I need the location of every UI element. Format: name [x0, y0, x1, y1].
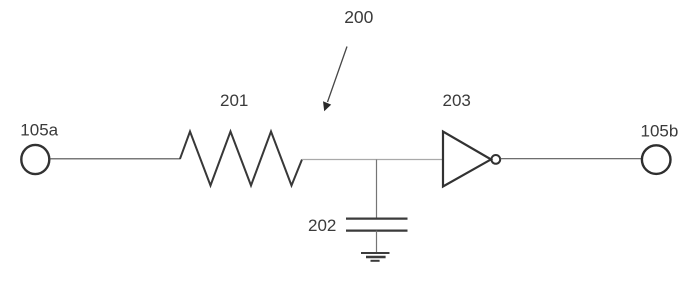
svg-text:105a: 105a [20, 120, 58, 139]
svg-text:200: 200 [344, 7, 373, 27]
svg-text:105b: 105b [641, 122, 679, 141]
svg-text:201: 201 [220, 91, 248, 110]
svg-text:202: 202 [308, 216, 336, 235]
svg-text:203: 203 [443, 91, 471, 110]
